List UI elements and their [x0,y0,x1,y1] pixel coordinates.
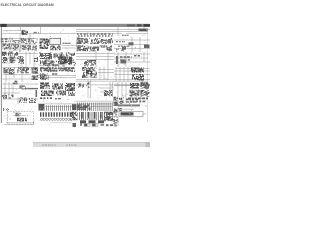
legend box 1 [84,123,90,126]
wire [33,121,35,124]
inline fuse holder outline [119,111,143,116]
wire [117,97,119,112]
wire [126,33,148,35]
relay K20 [130,83,139,89]
dark connector bar [114,104,140,106]
wire [116,68,150,70]
wire [1,93,8,98]
switch SW4 [20,86,27,91]
wire [114,61,150,63]
wire [3,92,21,94]
wire [114,44,148,46]
wire [3,67,39,69]
wire [38,103,114,105]
terminal block loops [41,118,73,120]
wire [5,67,7,82]
ECU connector [82,67,97,78]
wire [76,79,150,81]
wire [115,67,117,82]
relay small C [121,60,127,64]
control unit U1 lower bank [50,46,61,51]
wire [13,114,26,116]
wire [19,34,21,52]
wire [76,80,148,82]
wire [3,62,15,64]
legend symbol mark [73,123,77,127]
junction J1 [14,81,19,85]
white routing lane [77,44,113,45]
wire [117,52,119,67]
wire [125,82,127,97]
wire [3,74,41,76]
relay K5 [79,39,89,44]
connector block CN13 [113,111,118,118]
svg-text:C 8 9 12: C 8 9 12 [66,143,77,147]
connector strip [77,38,80,52]
fuse F2 [2,52,7,56]
connector block CN13 lower [113,119,119,124]
label block [126,99,138,101]
relay block K10c [17,56,24,64]
ground lug marks [3,108,9,111]
relay block K10a [2,57,8,63]
relay K1 [22,30,29,35]
relay K6 [91,39,99,45]
wiring speckle area left [2,38,38,51]
relay K21 [141,82,150,89]
wire [3,53,39,55]
dashed option box [8,112,34,125]
sheet bottom border segment 2 [50,122,72,124]
connector body CN11c [98,120,104,123]
label [134,55,140,57]
tick marks [116,49,125,52]
wire [119,67,121,82]
svg-text:9 W 1/2 L3: 9 W 1/2 L3 [42,143,56,147]
optional relay [15,113,20,116]
wire [40,106,112,108]
switch block SW2 [40,61,54,67]
connector pin row CN8 [77,103,113,112]
connector CN2 [102,46,112,51]
relay K15 [40,83,50,90]
wire [117,27,119,36]
wire [114,53,150,55]
wire [121,82,123,97]
flasher unit [40,53,52,59]
wire [98,69,114,71]
wire [9,37,11,52]
status bar [33,142,150,147]
connector pin row CN7 [46,105,71,111]
wire code labels 2 [130,101,146,103]
relay K12 [40,74,49,80]
connector pin row CN11 [79,112,107,120]
wire [125,52,127,67]
wire [76,59,114,61]
legend text [101,124,105,126]
label [55,98,62,99]
relay small A [129,42,134,45]
connector CN5 [8,95,14,99]
junction box JB1 [2,43,12,48]
label [118,46,130,47]
terminal strip texture [40,67,75,72]
terminal strip labels 2 [40,70,73,72]
wire [3,88,39,90]
main relay block [58,57,72,65]
connector CN3 [34,57,38,62]
wire [3,43,37,45]
scrollbar button [146,143,150,147]
wire [117,117,119,127]
buzzer [54,54,63,59]
relay K9 [90,47,99,52]
vertical connector A [114,97,119,106]
fuse F4 [14,52,18,56]
wire [4,82,6,97]
white gap in CN4 [31,74,39,76]
wire [114,84,150,86]
connector body CN8 [78,105,91,111]
fuse F3 [8,52,13,56]
wire [114,85,150,87]
diode pack [56,91,66,96]
sheet bottom border segment [6,122,34,124]
relay K13 [131,68,144,73]
wire [25,52,27,67]
wire [4,124,34,126]
wire [3,38,39,40]
wire [99,67,101,80]
capacitor C1 [68,92,75,97]
wire [121,97,123,104]
relay K4 [28,40,34,44]
wire [103,67,105,80]
wire [100,87,114,89]
label [52,73,58,75]
label block [120,56,132,58]
inline fuse element [121,112,134,115]
wiring speckle area center [39,52,76,66]
relay K22 [130,90,140,97]
label block2 [126,101,137,102]
relay K16 [52,84,63,90]
sheet left border [0,27,2,123]
wire [13,67,15,78]
vertical wire dark segment [36,90,38,97]
label block [40,97,52,99]
legend text 2 [106,124,116,126]
right edge connector [144,45,150,49]
wire [76,29,150,31]
wire [76,33,122,35]
vertical connector B [119,97,124,104]
label block [1,38,9,40]
wire [114,57,148,59]
connector end block left [39,104,45,111]
wire [29,52,31,64]
connector body CN11a [80,120,86,123]
wire [100,91,112,93]
wire [40,27,42,34]
wire [76,84,150,86]
wiring speckle area [77,38,113,52]
ground terminal [2,95,7,99]
wire [12,82,14,93]
wire [95,52,97,67]
wire [8,82,10,97]
white patch [99,48,107,52]
terminal block squares [40,112,71,117]
wire [131,37,133,52]
legend box 2 [92,123,98,126]
resistor pack R1 [84,60,96,66]
connector CN10 [70,112,78,121]
connector CN9 [139,29,148,32]
wire [3,48,31,50]
control unit U1 window [50,38,61,44]
wire [38,77,76,79]
wire [38,75,76,77]
wire [98,72,114,74]
wire [3,78,33,80]
wire code labels [128,98,148,100]
wire [3,98,39,100]
wire [118,106,140,108]
connector body CN11b [89,120,96,123]
wire [125,97,127,104]
connector CN6 [104,90,113,96]
switch SW1 [22,45,31,49]
relay block K2 [13,40,20,49]
wire [143,52,145,62]
wire [17,112,19,117]
relay K18 [41,91,54,97]
fuse labels row [77,33,113,35]
label [122,35,129,36]
wire [21,64,23,82]
wire [139,37,141,52]
wire [62,47,76,49]
wire [107,67,109,80]
wire [62,45,76,47]
wire [114,74,150,76]
wire [76,100,114,102]
wire [87,80,89,98]
label block [120,59,130,60]
combination meter connector [17,67,29,73]
wire [3,83,39,85]
label [34,32,40,33]
wire [112,120,118,122]
wire [114,48,150,50]
wire [123,67,125,82]
relay small B [122,46,126,49]
connector end block right [72,104,77,110]
wire [20,27,22,31]
wire [109,82,111,97]
legend small mark [115,125,118,127]
wire [116,108,134,110]
connector block CN4 [31,68,38,81]
wire [76,53,114,55]
relay K14 [132,74,144,81]
relay K19 [78,84,84,88]
label block [1,41,9,42]
legend tick [80,123,82,126]
wire [111,82,113,97]
junction J2 [114,108,122,111]
switch SW6 [29,98,36,103]
wire dark segment [26,88,38,89]
wire [3,57,21,59]
label [63,43,71,44]
wire [143,113,146,115]
ECU connector core [86,70,93,74]
relay K3 [21,39,27,44]
wire [3,33,77,35]
wire [143,27,145,29]
header bar right labels [127,24,135,26]
optional connector [17,118,27,122]
wire [76,56,114,58]
wire [90,80,92,98]
wire [33,52,35,67]
terminal strip labels [40,67,75,69]
sheet right border [147,28,149,122]
relay K23 [141,90,150,97]
wire [139,97,141,104]
vertical wire dark segment B [116,56,118,64]
diode block [33,46,38,52]
fuse row F1 [78,35,113,37]
relay K17 [65,83,75,91]
wire [76,30,148,32]
switch SW5 [19,98,27,104]
wire [29,34,31,50]
header bar left label [0,24,6,27]
relay K11 [66,53,75,56]
wire [17,97,19,104]
label [116,41,125,42]
wire [114,70,150,72]
svg-text:ELECTRICAL CIRCUIT DIAGRAM: ELECTRICAL CIRCUIT DIAGRAM [1,3,54,7]
wire [127,67,129,82]
relay block K10b [10,57,16,64]
wire [107,52,109,67]
sheet header bar [0,24,150,27]
wire [117,82,119,97]
relay K7 [101,39,111,44]
wire [3,30,21,32]
connector pin clumps CN11 [81,112,101,119]
control unit U1 left bank [40,39,50,50]
connector block CN12 [104,112,113,121]
wire [114,39,150,41]
ignition switch SW3 [3,68,14,75]
wire labels [86,82,90,88]
relay K8 [79,46,88,51]
